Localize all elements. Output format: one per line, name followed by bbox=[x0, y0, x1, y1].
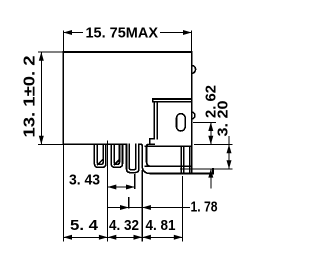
extension line top dim right bbox=[191, 31, 193, 53]
arrow 13.1 bottom bbox=[39, 136, 44, 145]
arrow 3.20 bottom bbox=[227, 160, 232, 169]
arrow stub up bbox=[208, 169, 213, 178]
center locating peg outer bbox=[127, 144, 139, 172]
dimension stub below right bbox=[210, 169, 212, 189]
dimension line 15.75MAX bbox=[63, 32, 191, 34]
extension line peg center bbox=[134, 174, 136, 189]
svg-text:5. 4: 5. 4 bbox=[70, 217, 99, 234]
extension line peg inner wall bbox=[128, 197, 130, 209]
svg-text:3. 20: 3. 20 bbox=[215, 101, 232, 137]
block left wall double lines bbox=[150, 102, 157, 145]
extension line body top left bbox=[38, 51, 63, 53]
pin 2 (nested U contact) bbox=[111, 144, 122, 167]
shield tab block top double lines bbox=[153, 99, 192, 102]
extension line right upper bbox=[193, 121, 216, 123]
label 13.1±0.2 bbox=[22, 55, 39, 137]
arrow 1.78 left outside bbox=[120, 205, 129, 210]
bottom chain dimension line bbox=[63, 236, 182, 238]
extension line body bottom left bbox=[38, 143, 63, 145]
housing body outline bbox=[63, 52, 191, 146]
extension line E4 rear leg bbox=[182, 176, 184, 242]
arrow 15.75 right bbox=[183, 30, 192, 35]
extension line right lower bbox=[180, 168, 233, 170]
arrow bottom E4 bbox=[174, 235, 183, 240]
label 15.75MAX bbox=[86, 24, 159, 41]
dimension line 3.43 bbox=[108, 186, 135, 188]
label 3.20 bbox=[215, 101, 232, 137]
body bottom line bbox=[63, 143, 141, 145]
oval slot in block bbox=[177, 114, 186, 131]
label 5.4 bbox=[70, 217, 99, 234]
label 4.81 bbox=[146, 217, 176, 234]
arrow bottom E3 left bbox=[134, 235, 143, 240]
label 3.43 bbox=[69, 171, 100, 188]
svg-text:4. 81: 4. 81 bbox=[146, 217, 176, 234]
svg-text:1. 78: 1. 78 bbox=[191, 199, 218, 216]
round boss on right edge bbox=[192, 65, 196, 73]
arrow 3.20 top bbox=[227, 145, 232, 154]
pin 1 (nested U contact) bbox=[94, 144, 106, 167]
mounting bracket flange band bbox=[145, 146, 191, 166]
dimension line 1.78 bbox=[108, 207, 190, 209]
extension line E3 leg left bbox=[141, 170, 143, 242]
center locating peg inner bbox=[129, 144, 136, 169]
arrow bottom E1 bbox=[63, 235, 72, 240]
label 1.78 bbox=[191, 199, 218, 216]
svg-text:4. 32: 4. 32 bbox=[109, 217, 139, 234]
arrow 15.75 left bbox=[63, 30, 72, 35]
arrow 2.62 bottom bbox=[208, 136, 213, 145]
extension line right middle bbox=[194, 144, 233, 146]
arrow 3.43 left bbox=[108, 185, 117, 190]
arrow bottom E3 right bbox=[142, 235, 151, 240]
arrow 1.78 right inside bbox=[142, 205, 151, 210]
arrow bottom E2 right bbox=[108, 235, 117, 240]
arrow 3.43 right bbox=[126, 185, 135, 190]
small latch bump on right edge bbox=[192, 112, 195, 119]
extension line E1 from body left edge bbox=[62, 144, 64, 241]
arrow 13.1 top bbox=[39, 52, 44, 61]
dimension line 3.20 vertical bbox=[228, 136, 230, 169]
label 2.62 bbox=[203, 85, 220, 118]
extension line top dim left bbox=[62, 31, 64, 53]
label 4.32 bbox=[109, 217, 139, 234]
L-shaped solder leg bbox=[141, 144, 213, 173]
svg-text:15. 75MAX: 15. 75MAX bbox=[86, 24, 159, 41]
svg-text:3. 43: 3. 43 bbox=[69, 171, 100, 188]
arrow bottom E2 left bbox=[99, 235, 108, 240]
arrow 2.62 top bbox=[208, 122, 213, 131]
svg-text:13. 1±0. 2: 13. 1±0. 2 bbox=[22, 55, 39, 137]
dimension line 2.62 vertical bbox=[210, 122, 212, 144]
dimension line 13.1 vertical bbox=[40, 52, 42, 144]
rear solder leg double lines bbox=[181, 146, 191, 173]
extension line E2 between pins bbox=[107, 141, 109, 242]
